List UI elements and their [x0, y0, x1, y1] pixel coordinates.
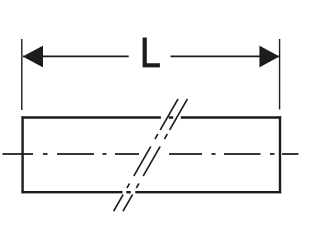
rod body right edge (thick) — [279, 116, 281, 193]
break line 1 (dash-dot diagonal) — [114, 99, 178, 211]
rod body top edge (thick, interrupted by break lines) — [21, 116, 281, 118]
dimension label L — [143, 38, 160, 68]
arrowhead left — [23, 46, 43, 68]
arrowhead right — [259, 46, 279, 68]
centerline (dash-dot axis) — [3, 153, 299, 155]
dimension line L (right part) — [171, 55, 280, 57]
extension line right — [279, 39, 281, 110]
extension line left — [21, 39, 23, 110]
break line 2 (dash-dot diagonal) — [123, 99, 187, 211]
rod body left edge (thick) — [21, 116, 23, 193]
rod body bottom edge (thick, interrupted by break lines) — [21, 191, 281, 193]
dimension line L (left part) — [23, 55, 129, 57]
